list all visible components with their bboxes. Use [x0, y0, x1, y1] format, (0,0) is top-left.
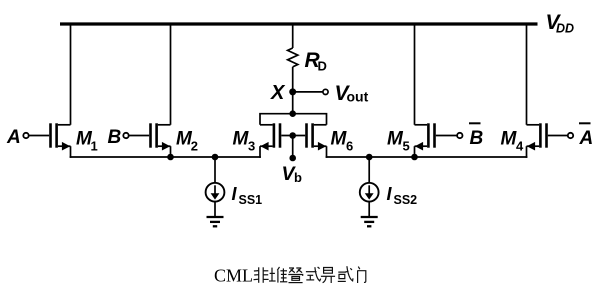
- ground (right): [361, 217, 378, 226]
- input terminal B-bar: [436, 133, 463, 138]
- wire tail to ISS1: [214, 157, 216, 183]
- label RD: [305, 49, 327, 74]
- VDD power rail: [60, 22, 538, 25]
- wire M1 drain to rail: [70, 24, 72, 125]
- input terminal A: [23, 133, 49, 138]
- label B-bar: [469, 123, 484, 149]
- caption hanzi FEI: [254, 267, 269, 283]
- transistor M5: [415, 123, 436, 150]
- caption hanzi DUI: [269, 267, 287, 283]
- svg-text:SS1: SS1: [239, 193, 263, 207]
- caption hanzi SHI: [306, 267, 321, 281]
- wire M2 drain to rail: [170, 24, 172, 125]
- wire M5 drain to rail: [414, 24, 416, 125]
- wire left tail node: [70, 156, 261, 158]
- wire right tail node: [326, 156, 528, 158]
- svg-text:X: X: [270, 82, 286, 104]
- svg-text:DD: DD: [556, 22, 574, 36]
- svg-text:2: 2: [191, 139, 198, 154]
- wire M4 source down: [526, 146, 528, 158]
- svg-text:A: A: [579, 128, 594, 149]
- current source ISS1: [206, 183, 225, 202]
- wire ISS2 to ground: [368, 202, 370, 217]
- current source ISS2: [360, 183, 379, 202]
- transistor M1: [49, 123, 70, 150]
- transistor M4: [527, 123, 548, 150]
- terminal Vout: [323, 89, 328, 94]
- wire M6 source down: [326, 146, 328, 158]
- wire rail to resistor RD: [292, 24, 294, 48]
- label A-bar: [579, 123, 594, 149]
- wire tail to ISS2: [368, 157, 370, 183]
- ground (left): [207, 217, 224, 226]
- svg-text:SS2: SS2: [394, 193, 418, 207]
- wire M5 source down: [414, 146, 416, 158]
- caption hanzi HUO: [338, 266, 353, 281]
- wire M2 source down: [170, 146, 172, 158]
- resistor RD: [288, 48, 298, 67]
- svg-text:M: M: [387, 129, 404, 150]
- transistor M3: [260, 123, 281, 150]
- svg-text:D: D: [318, 59, 327, 74]
- input terminal A-bar: [548, 133, 573, 138]
- wire M3 source down: [259, 146, 261, 158]
- caption hanzi MEN: [358, 267, 366, 283]
- wire differential pair drains to node X: [260, 110, 327, 124]
- svg-text:M: M: [501, 129, 518, 150]
- label Vout: [335, 82, 369, 105]
- svg-text:CML: CML: [214, 266, 253, 286]
- label M6: [331, 129, 354, 154]
- svg-text:6: 6: [346, 139, 353, 154]
- input terminal B: [123, 133, 149, 138]
- wire gate node to Vb terminal: [289, 136, 296, 162]
- wire gate node of M3 and M6: [281, 132, 305, 139]
- svg-text:out: out: [347, 89, 369, 105]
- transistor M6: [305, 123, 326, 150]
- junction M5 source: [411, 154, 418, 161]
- svg-text:M: M: [233, 129, 250, 150]
- svg-text:A: A: [6, 127, 21, 148]
- wire resistor to pair drains: [292, 67, 294, 114]
- wire M1 source down: [70, 146, 72, 158]
- label ISS2: [387, 184, 418, 207]
- wire ISS1 to ground: [214, 202, 216, 217]
- svg-text:5: 5: [403, 139, 410, 154]
- label Vb: [282, 163, 303, 185]
- caption hanzi DIE: [288, 268, 302, 283]
- caption hanzi YI: [321, 268, 335, 284]
- label VDD: [546, 11, 575, 36]
- wire M4 drain to rail: [526, 24, 528, 125]
- label ISS1: [232, 184, 263, 207]
- label M5: [387, 129, 410, 154]
- label M3: [233, 129, 256, 154]
- svg-text:1: 1: [91, 139, 98, 154]
- transistor M2: [149, 123, 170, 150]
- wire X to Vout terminal: [293, 91, 323, 93]
- svg-text:b: b: [294, 170, 302, 185]
- label M1: [76, 129, 98, 154]
- junction M2 source: [167, 154, 174, 161]
- label M2: [176, 129, 198, 154]
- junction ISS2 tap: [366, 154, 373, 161]
- svg-text:3: 3: [248, 139, 255, 154]
- svg-text:4: 4: [516, 139, 524, 154]
- svg-text:B: B: [470, 128, 484, 149]
- svg-text:M: M: [331, 129, 348, 150]
- junction ISS1 tap: [212, 154, 219, 161]
- svg-text:B: B: [108, 127, 122, 148]
- node X: [289, 88, 296, 95]
- label M4: [501, 129, 525, 154]
